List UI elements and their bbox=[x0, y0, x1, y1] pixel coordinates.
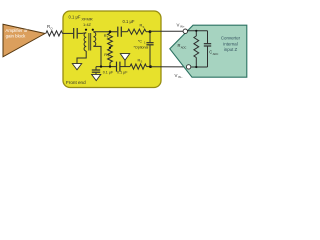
terminal VIN- bbox=[186, 65, 190, 69]
svg-text:Amplifier or: Amplifier or bbox=[5, 28, 28, 33]
svg-text:1:4Z: 1:4Z bbox=[83, 22, 92, 27]
node between termination resistors bbox=[109, 47, 111, 49]
resistor RT lower termination bbox=[104, 49, 112, 63]
wire primary to ground bbox=[77, 51, 86, 63]
wire bbox=[122, 31, 128, 33]
svg-text:ADC: ADC bbox=[181, 45, 187, 49]
ground (bottom rail) bbox=[120, 54, 129, 67]
svg-text:0.1 μF: 0.1 μF bbox=[123, 19, 135, 24]
front-end block outline bbox=[63, 11, 161, 88]
resistor RT upper termination bbox=[104, 33, 113, 47]
svg-text:S: S bbox=[143, 25, 145, 29]
capacitor C1 optional differential bbox=[134, 32, 154, 67]
converter internal impedance block bbox=[170, 25, 247, 77]
svg-text:input Z: input Z bbox=[224, 47, 238, 52]
wire bbox=[146, 31, 150, 33]
wire to VIN- terminal bbox=[151, 66, 187, 68]
wire bbox=[63, 32, 74, 34]
svg-text:internal: internal bbox=[223, 41, 237, 46]
svg-text:ADC: ADC bbox=[213, 52, 219, 56]
svg-text:*C: *C bbox=[138, 40, 142, 44]
resistor RS series top bbox=[128, 23, 147, 35]
capacitor 0.1uF series bottom bbox=[117, 62, 129, 75]
capacitor 0.1uF series top bbox=[118, 19, 135, 37]
node VIN- junction bbox=[149, 65, 152, 68]
resistor RO bbox=[46, 24, 63, 36]
wire to VIN+ terminal bbox=[150, 30, 184, 32]
wire secondary top rail bbox=[93, 31, 117, 33]
svg-text:0.1 μF: 0.1 μF bbox=[117, 71, 128, 75]
svg-text:*Optional: *Optional bbox=[134, 45, 149, 49]
capacitor 0.1uF to ground bbox=[92, 67, 100, 75]
node feed joins rail bbox=[100, 65, 102, 67]
node VIN+ junction bbox=[149, 30, 152, 33]
capacitor C 0.1uF input coupling bbox=[69, 15, 81, 39]
wire bbox=[109, 62, 111, 66]
svg-text:IN+: IN+ bbox=[180, 25, 185, 29]
svg-text:Front end: Front end bbox=[66, 80, 86, 85]
wire bbox=[78, 32, 87, 35]
wire bbox=[147, 66, 151, 68]
node top termination junction bbox=[109, 30, 112, 33]
wire internal bottom rail bbox=[191, 66, 208, 68]
terminal VIN+ bbox=[183, 29, 187, 33]
svg-text:IN–: IN– bbox=[178, 75, 183, 79]
op-amp U1 amplifier/gain block bbox=[3, 24, 45, 57]
svg-text:S: S bbox=[141, 60, 143, 64]
node termination joins rail bbox=[109, 65, 111, 67]
ground (primary) bbox=[72, 64, 81, 70]
ground (cap) bbox=[92, 74, 101, 80]
wire internal top rail bbox=[187, 30, 207, 32]
svg-text:gain block: gain block bbox=[6, 33, 27, 38]
svg-text:0.1 μF: 0.1 μF bbox=[69, 15, 81, 20]
svg-text:Converter: Converter bbox=[221, 36, 241, 41]
transformer T1 XFMR 1:4Z bbox=[81, 17, 95, 51]
resistor RS series bottom bbox=[130, 58, 147, 70]
svg-text:0.1 μF: 0.1 μF bbox=[103, 71, 114, 75]
capacitor CADC bbox=[204, 31, 219, 67]
wire bottom rail bbox=[96, 66, 116, 68]
wire bbox=[120, 66, 130, 68]
resistor RADC bbox=[178, 30, 199, 68]
label converter internal input Z bbox=[221, 36, 241, 52]
wire secondary bottom feed bbox=[93, 46, 101, 66]
